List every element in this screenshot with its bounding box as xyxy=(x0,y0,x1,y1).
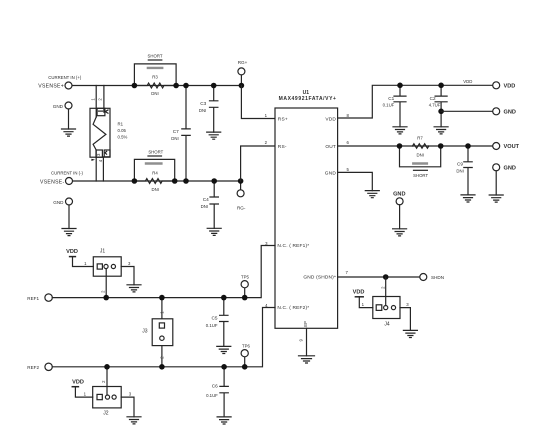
svg-text:EP: EP xyxy=(303,321,308,327)
wire REF2 rail to pin 4 xyxy=(52,308,275,367)
wire pin 7 SHDN row xyxy=(338,276,420,278)
junction C1 top xyxy=(397,83,403,89)
ground under C2 xyxy=(434,127,448,134)
terminal GND top-left xyxy=(65,102,72,129)
junction C2 top xyxy=(438,83,444,89)
svg-text:J3: J3 xyxy=(142,329,148,335)
svg-text:0.1UF: 0.1UF xyxy=(383,102,395,107)
resistor R1 (4-terminal current sense) xyxy=(90,86,110,182)
ground under J2 xyxy=(127,417,141,424)
ground under C4 xyxy=(207,228,221,235)
junction R7 left xyxy=(397,143,403,149)
svg-text:N.C. ( REF2)*: N.C. ( REF2)* xyxy=(277,305,309,311)
svg-text:R4: R4 xyxy=(152,170,158,175)
terminal REF2 xyxy=(45,363,52,370)
pin 4 N.C. (REF2)* xyxy=(265,303,309,311)
jumper SHORT across R4 xyxy=(134,150,174,181)
label R1 value xyxy=(118,121,128,139)
junction TP6 on REF2 xyxy=(242,364,248,370)
junction R3 left xyxy=(132,83,138,89)
svg-text:OUT: OUT xyxy=(325,144,336,150)
junction R4 right xyxy=(172,178,178,184)
svg-text:VDD: VDD xyxy=(504,84,516,90)
terminal GND right (floating) xyxy=(493,164,500,195)
svg-text:VOUT: VOUT xyxy=(504,144,520,150)
ground under C9 xyxy=(461,195,475,202)
terminal VSENSE+ xyxy=(65,82,72,89)
terminal RG+ xyxy=(238,68,245,86)
ground under C5 xyxy=(217,346,231,353)
jumper J1 xyxy=(93,248,121,297)
power VDD at J1 xyxy=(66,249,93,267)
junction C5 top xyxy=(221,295,227,301)
jumper J2 xyxy=(93,367,122,417)
svg-text:TP6: TP6 xyxy=(242,343,250,348)
capacitor C3 xyxy=(199,86,218,133)
wire bottom rail VSENSE- to RG- node xyxy=(73,180,241,182)
svg-text:REF1: REF1 xyxy=(27,296,39,301)
wire top rail VSENSE+ to RG+ node xyxy=(72,85,241,87)
svg-text:C9: C9 xyxy=(457,161,463,166)
capacitor C6 xyxy=(206,367,228,417)
pin 8 VDD xyxy=(325,113,349,122)
terminal RG- xyxy=(237,181,244,197)
svg-text:C1: C1 xyxy=(388,96,394,101)
svg-text:GND: GND xyxy=(504,110,516,116)
junction RG- node xyxy=(238,178,244,184)
svg-text:0.5%: 0.5% xyxy=(118,135,128,140)
svg-text:DNI: DNI xyxy=(151,187,158,192)
svg-text:GND: GND xyxy=(504,166,516,172)
ground under EP xyxy=(299,356,315,363)
svg-text:C4: C4 xyxy=(203,197,209,202)
terminal VDD xyxy=(493,82,500,89)
svg-text:DNI: DNI xyxy=(151,91,158,96)
svg-text:R3: R3 xyxy=(152,74,158,79)
svg-text:GND: GND xyxy=(53,104,64,109)
svg-text:SHORT: SHORT xyxy=(148,54,163,59)
svg-text:0.1UF: 0.1UF xyxy=(206,393,218,398)
capacitor C1 xyxy=(383,85,406,127)
junction C3 top xyxy=(211,83,217,89)
svg-text:4.7UF: 4.7UF xyxy=(429,102,441,107)
terminal GND lower-left xyxy=(66,198,73,229)
junction C6 top xyxy=(221,364,227,370)
svg-text:VDD: VDD xyxy=(66,249,78,255)
svg-text:J2: J2 xyxy=(103,411,109,417)
junction R4 left xyxy=(132,178,138,184)
ground under lower-left GND xyxy=(62,229,76,236)
svg-text:VDD: VDD xyxy=(72,379,84,385)
resistor R7 xyxy=(413,135,429,157)
wire J2 pin 3 to ground xyxy=(121,397,134,417)
junction C9 top xyxy=(465,143,471,149)
junction TP5 on REF1 xyxy=(242,295,248,301)
pin 1 RS+ xyxy=(265,113,288,123)
terminal VOUT xyxy=(493,143,500,150)
svg-text:DNI: DNI xyxy=(416,152,423,157)
svg-text:C6: C6 xyxy=(212,383,218,388)
junction J3 top on REF1 xyxy=(159,295,165,301)
ground under GND center xyxy=(393,229,407,236)
svg-text:0.1UF: 0.1UF xyxy=(206,323,218,328)
svg-text:DNI: DNI xyxy=(199,108,206,113)
ground under floating GND xyxy=(489,195,503,202)
capacitor C2 xyxy=(429,85,447,127)
ground under C3 xyxy=(207,132,221,139)
ground under J1 xyxy=(127,285,141,292)
terminal SHDN xyxy=(420,274,427,281)
svg-text:GND: GND xyxy=(325,171,337,177)
svg-text:GND: GND xyxy=(53,200,64,205)
junction C7 bottom xyxy=(183,178,189,184)
pin 6 OUT xyxy=(325,140,349,150)
ground under top-left GND xyxy=(62,129,76,136)
svg-text:VSENSE+: VSENSE+ xyxy=(38,84,64,90)
svg-text:RG+: RG+ xyxy=(238,60,248,65)
wire C2 bottom to GND terminal xyxy=(441,110,493,112)
pin 3 N.C. (REF1)* xyxy=(265,241,309,249)
svg-text:U1: U1 xyxy=(303,90,310,96)
junction C7 top xyxy=(183,83,189,89)
wire pin 5 to ground xyxy=(338,172,373,190)
wire pin 6 OUT row xyxy=(338,145,493,147)
junction C4 top xyxy=(211,178,217,184)
wire REF1 rail to pin 3 xyxy=(52,246,275,298)
svg-text:0.05: 0.05 xyxy=(118,128,127,133)
capacitor C7 xyxy=(171,86,190,182)
pin 2 RS- xyxy=(265,140,287,150)
svg-text:SHORT: SHORT xyxy=(413,173,428,178)
terminal VSENSE- xyxy=(66,178,73,185)
svg-text:C3: C3 xyxy=(200,101,206,106)
svg-text:N.C. ( REF1)*: N.C. ( REF1)* xyxy=(277,243,309,249)
resistor R3 xyxy=(137,74,174,96)
junction R3 right xyxy=(173,83,179,89)
svg-text:RS-: RS- xyxy=(278,144,287,150)
svg-text:R7: R7 xyxy=(417,135,423,140)
ground under C6 xyxy=(217,417,231,424)
terminal GND right of C2 xyxy=(493,108,500,115)
wire pin 8 to VDD rail xyxy=(338,85,493,118)
test point TP5 xyxy=(241,281,248,298)
svg-text:VDD: VDD xyxy=(463,79,472,84)
test point TP6 xyxy=(241,350,248,367)
junction RG+ node xyxy=(239,83,245,89)
svg-text:CURRENT IN (+): CURRENT IN (+) xyxy=(48,75,82,80)
ground under pin 5 xyxy=(365,191,379,198)
jumper J4 xyxy=(373,277,400,328)
svg-text:MAX49921FATA/VY+: MAX49921FATA/VY+ xyxy=(279,96,337,102)
resistor R4 xyxy=(137,170,173,192)
svg-text:SHDN: SHDN xyxy=(431,275,444,280)
svg-text:SHORT: SHORT xyxy=(148,150,163,155)
junction J1 pin2 on REF1 xyxy=(103,295,109,301)
capacitor C5 xyxy=(206,298,228,347)
ground under J4 xyxy=(403,330,417,337)
svg-text:TP5: TP5 xyxy=(241,274,249,279)
ground under C1 xyxy=(393,127,407,134)
svg-text:VSENSE-: VSENSE- xyxy=(40,179,64,185)
jumper SHORT across R7 xyxy=(400,146,441,178)
power VDD at J4 xyxy=(353,289,373,307)
capacitor C4 xyxy=(201,181,219,228)
svg-text:VDD: VDD xyxy=(353,289,365,295)
svg-text:C5: C5 xyxy=(212,315,218,320)
junction C2 bottom / GND node xyxy=(438,109,444,115)
wire RG- node to pin 2 xyxy=(241,146,275,181)
pin 9 EP xyxy=(299,321,308,342)
svg-text:GND (SHDN)*: GND (SHDN)* xyxy=(303,275,336,281)
svg-text:C2: C2 xyxy=(430,96,436,101)
pin 7 GND (SHDN)* xyxy=(303,270,348,281)
wire J4 pin 3 to ground xyxy=(400,308,410,331)
svg-text:GND: GND xyxy=(393,191,405,197)
jumper J3 xyxy=(142,298,173,367)
svg-text:J1: J1 xyxy=(100,248,106,254)
svg-text:J4: J4 xyxy=(384,322,390,328)
junction R7 right xyxy=(438,143,444,149)
svg-text:CURRENT IN (-): CURRENT IN (-) xyxy=(51,171,83,176)
svg-text:DNI: DNI xyxy=(456,168,463,173)
svg-text:C7: C7 xyxy=(173,129,179,134)
svg-text:DNI: DNI xyxy=(171,136,178,141)
svg-text:RG-: RG- xyxy=(237,206,246,211)
terminal GND center (below pin5) xyxy=(396,198,403,229)
junction J2 pin2 on REF2 xyxy=(104,364,110,370)
svg-text:VDD: VDD xyxy=(325,116,336,122)
power VDD at J2 xyxy=(72,379,93,397)
jumper SHORT across R3 xyxy=(134,54,176,86)
junction SHDN / J4 xyxy=(383,274,389,280)
svg-text:DNI: DNI xyxy=(201,204,208,209)
junction J3 bottom on REF2 xyxy=(159,364,165,370)
svg-text:RS+: RS+ xyxy=(278,116,288,122)
pin 5 GND xyxy=(325,167,350,177)
wire EP to ground xyxy=(306,328,308,356)
capacitor C9 xyxy=(456,146,472,195)
svg-text:R1: R1 xyxy=(118,121,124,126)
svg-text:REF2: REF2 xyxy=(27,365,39,370)
op-amp U1 MAX49921FATA/VY+ xyxy=(275,90,338,328)
wire J1 pin 3 to ground xyxy=(121,267,134,285)
wire RG+ node to pin 1 xyxy=(241,86,275,119)
terminal REF1 xyxy=(45,294,52,301)
